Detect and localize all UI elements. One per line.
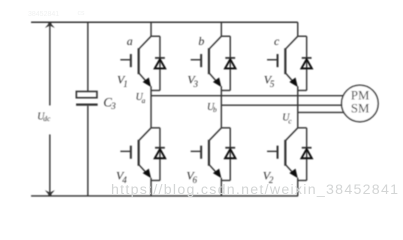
wire: negative DC bus (bottom rail)	[31, 195, 298, 197]
wire: positive DC bus (top rail)	[31, 21, 298, 23]
wire: leg c collector feed from top bus	[297, 22, 299, 36]
svg-text:Udc: Udc	[37, 112, 51, 123]
svg-text:https://blog.csdn.net/weixin_3: https://blog.csdn.net/weixin_38452841	[111, 182, 398, 198]
IGBT V3	[191, 36, 222, 87]
wire: phase b midpoint vertical	[220, 86, 222, 128]
node Udc: DC-link voltage dimension arrow	[45, 22, 55, 196]
IGBT V2	[267, 128, 298, 178]
wire: leg c emitter to bottom bus	[297, 178, 299, 196]
freewheeling diode of V5	[298, 36, 312, 90]
wire: leg b emitter to bottom bus	[220, 178, 222, 196]
svg-text:PM: PM	[351, 89, 370, 103]
wire: leg b collector feed from top bus	[220, 22, 222, 36]
wire: phase c midpoint vertical	[297, 86, 299, 128]
wire: phase c output Uc to motor	[298, 111, 345, 113]
freewheeling diode of V6	[221, 128, 235, 181]
IGBT V1	[120, 36, 151, 87]
svg-text:cs: cs	[78, 10, 86, 17]
svg-text:c: c	[274, 34, 280, 48]
freewheeling diode of V3	[221, 36, 235, 90]
wire: leg a collector feed from top bus	[150, 22, 152, 36]
freewheeling diode of V2	[298, 128, 312, 181]
motor PM/SM (PMSM machine)	[342, 85, 379, 122]
wire: leg a emitter to bottom bus	[150, 178, 152, 196]
IGBT V4	[120, 128, 151, 178]
capacitor C3	[76, 22, 98, 196]
svg-text:a: a	[127, 34, 133, 48]
IGBT V6	[191, 128, 222, 178]
wire: phase b output Ub to motor	[221, 104, 342, 106]
svg-text:b: b	[198, 34, 204, 48]
IGBT V5	[267, 36, 298, 87]
svg-text:SM: SM	[351, 102, 370, 116]
freewheeling diode of V4	[151, 128, 165, 181]
freewheeling diode of V1	[151, 36, 165, 90]
wire: phase a midpoint vertical	[150, 86, 152, 128]
wire: phase a output Ua to motor	[151, 95, 344, 97]
svg-text:38452841: 38452841	[28, 11, 59, 18]
